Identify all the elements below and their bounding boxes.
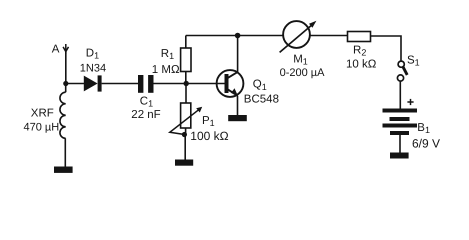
resistor R1 (181, 36, 191, 84)
svg-text:1N34: 1N34 (80, 63, 106, 75)
svg-text:10 kΩ: 10 kΩ (346, 59, 377, 71)
ground (P1) (175, 160, 193, 166)
top rail wire (186, 35, 284, 37)
wire diode to C1 (102, 83, 138, 85)
svg-text:S1: S1 (407, 54, 420, 67)
svg-text:R1: R1 (161, 48, 174, 61)
transistor Q1 (217, 70, 244, 97)
diode D1 (84, 75, 102, 91)
meter M1 (280, 21, 317, 53)
svg-text:D1: D1 (86, 47, 99, 60)
ground (battery) (390, 153, 409, 159)
svg-text:0-200 µA: 0-200 µA (280, 67, 326, 79)
resistor R2 (348, 32, 371, 42)
wire R2 to corner and down to S1 (371, 36, 402, 61)
svg-text:C1: C1 (140, 95, 153, 108)
ground (XRF) (54, 167, 73, 173)
node junction collector/rail (235, 33, 241, 39)
wire C1 to node (154, 83, 225, 85)
wire antenna to junction (65, 52, 67, 84)
svg-text:Q1: Q1 (253, 79, 267, 92)
svg-text:P1: P1 (202, 115, 215, 128)
node junction C1/R1/P1/base (184, 81, 189, 86)
svg-text:BC548: BC548 (244, 94, 279, 106)
wire junction to diode (66, 83, 84, 85)
antenna A symbol (63, 44, 68, 54)
wire S1 to battery (399, 81, 401, 108)
svg-text:6/9 V: 6/9 V (412, 136, 440, 150)
wire meter to R2 (310, 35, 348, 37)
svg-text:1 MΩ: 1 MΩ (152, 64, 180, 76)
svg-text:470 µH: 470 µH (24, 122, 60, 134)
svg-text:100 kΩ: 100 kΩ (190, 129, 228, 143)
potentiometer P1 (170, 84, 202, 160)
svg-text:R2: R2 (353, 44, 366, 57)
emitter wire (237, 96, 239, 115)
svg-text:B1: B1 (417, 122, 430, 135)
collector wire (237, 36, 239, 73)
node junction A/D1/XRF (63, 81, 68, 86)
battery B1 (383, 109, 418, 153)
ground (Q1 emitter) (228, 115, 247, 121)
svg-text:22 nF: 22 nF (131, 109, 160, 121)
svg-text:A: A (52, 43, 60, 55)
inductor XRF (60, 84, 66, 167)
switch S1 (397, 61, 407, 81)
svg-text:XRF: XRF (31, 107, 54, 119)
svg-text:M1: M1 (293, 54, 308, 67)
plus sign (407, 99, 413, 105)
capacitor C1 (138, 75, 154, 93)
